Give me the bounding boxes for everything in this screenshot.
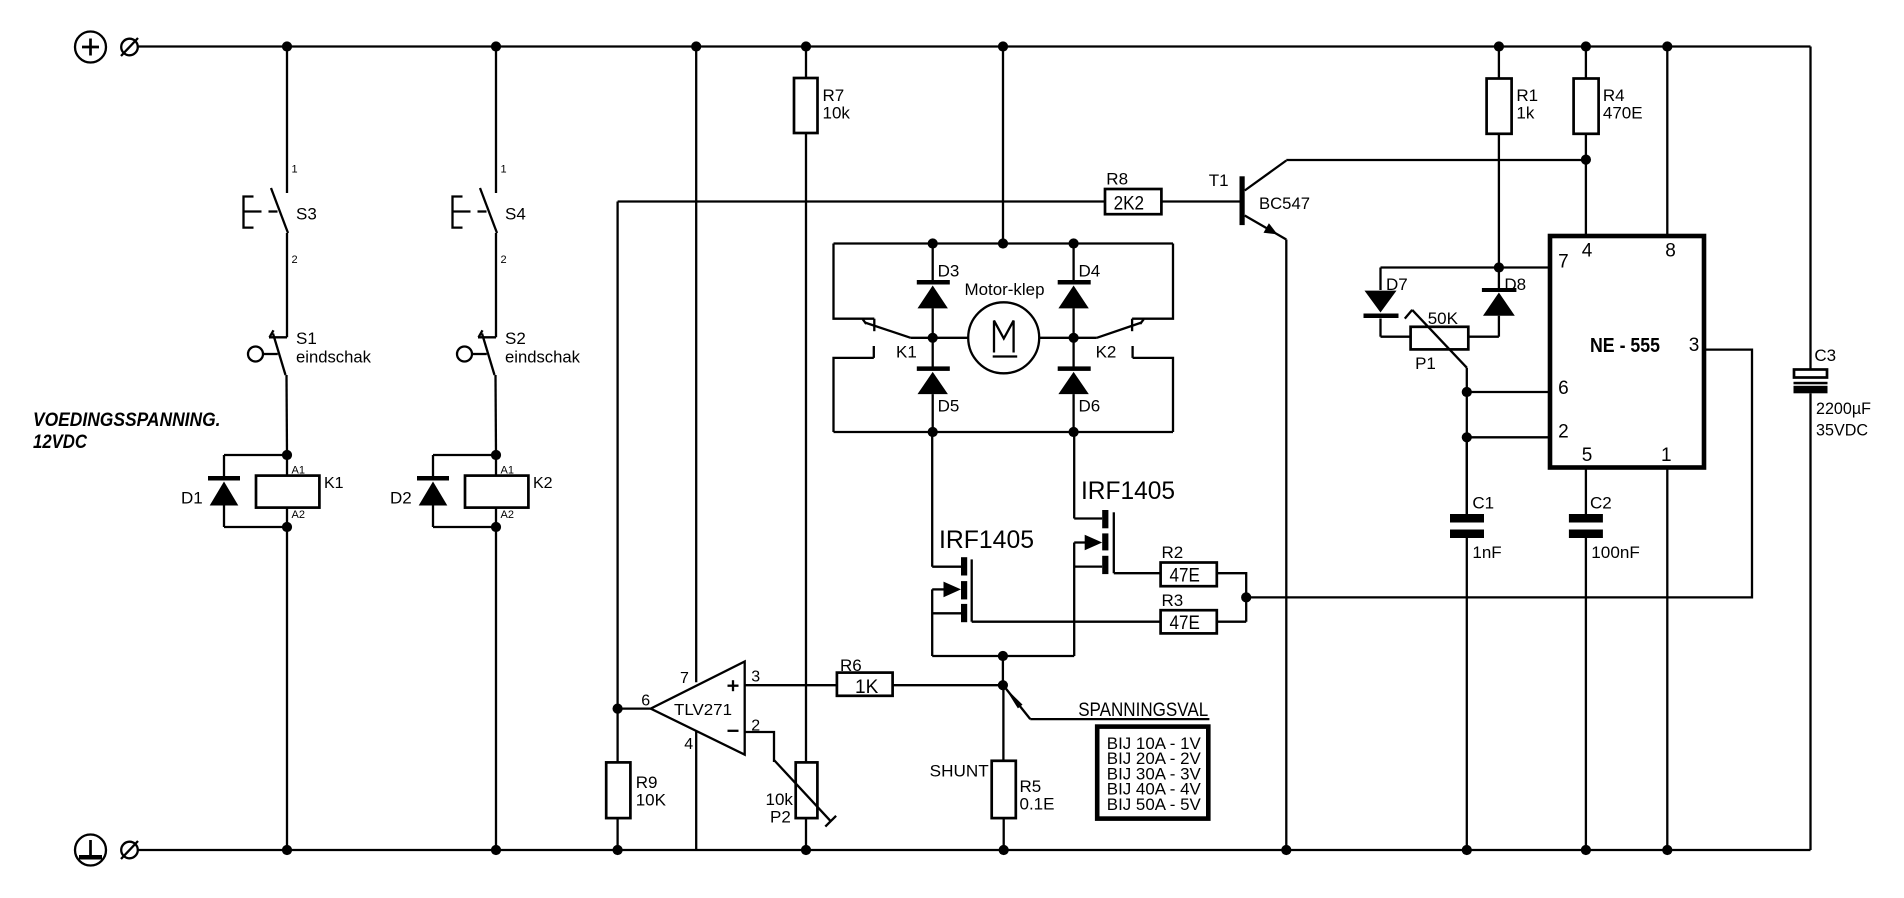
wire pin 3 to R6 (745, 684, 837, 686)
wire T1 collector to R4 (1286, 159, 1586, 161)
svg-text:IRF1405: IRF1405 (939, 526, 1034, 554)
svg-text:7: 7 (680, 670, 689, 687)
wire to diode D1 top (224, 454, 287, 456)
svg-text:A2: A2 (292, 509, 305, 521)
svg-text:D7: D7 (1386, 275, 1408, 294)
svg-text:S3: S3 (296, 205, 317, 224)
svg-text:1: 1 (501, 164, 507, 176)
wire op-amp V- (pin 4) to ground (695, 731, 697, 850)
wire motor left (911, 337, 969, 339)
svg-text:2200µF: 2200µF (1816, 399, 1871, 418)
relay contact K2 (bridge) (1096, 319, 1144, 362)
junction node motor left (928, 333, 938, 343)
transistor Q2 IRF1405 (1074, 432, 1175, 656)
wire pin 2 to P2 wiper (745, 732, 774, 762)
wire pin6 to pin2 node (1466, 392, 1468, 437)
op-amp U1 TLV271 (651, 662, 745, 755)
wire pin 2 555 (1467, 436, 1550, 438)
pin 5 label (555) (1582, 445, 1593, 466)
svg-text:D3: D3 (938, 262, 960, 281)
svg-text:D8: D8 (1504, 275, 1526, 294)
resistor R1 (1487, 79, 1539, 134)
svg-text:D5: D5 (938, 397, 960, 416)
wire output to R8 line (616, 202, 618, 709)
pin 1 label (555) (1661, 445, 1672, 466)
svg-text:NE - 555: NE - 555 (1590, 335, 1660, 357)
wire +12V top rail (138, 45, 1811, 47)
limit switch S1 (248, 329, 371, 375)
svg-text:S4: S4 (505, 205, 526, 224)
resistor R7 (794, 78, 850, 133)
junction node op-amp output (613, 704, 623, 714)
resistor R4 (1574, 79, 1643, 134)
pin 2 label S3 (292, 254, 298, 266)
wire bridge top (834, 242, 1174, 244)
svg-text:R9: R9 (636, 773, 658, 792)
op-amp wire pin6 555 (1467, 391, 1550, 393)
svg-text:6: 6 (1558, 378, 1569, 399)
wire pin 8 from rail (1666, 47, 1668, 237)
wire T1 emitter to ground (1285, 240, 1287, 851)
wire ground bottom rail (138, 849, 1811, 851)
pin 7 label (555) (1558, 252, 1569, 273)
junction node A2 of K2 (491, 522, 501, 532)
wire K1 A1 (286, 455, 288, 476)
wire motor right (1039, 337, 1097, 339)
svg-text:K2: K2 (1096, 343, 1117, 362)
pin 1 label S4 (501, 164, 507, 176)
capacitor C1 (1450, 437, 1502, 562)
svg-text:P2: P2 (770, 808, 791, 827)
svg-text:6: 6 (641, 693, 650, 710)
ground terminal (slashed circle) (121, 841, 138, 859)
svg-text:1: 1 (1661, 445, 1672, 466)
svg-text:VOEDINGSSPANNING.: VOEDINGSSPANNING. (33, 410, 221, 431)
junction node collector/R4 (1581, 155, 1591, 165)
junction node A1 of K1 (282, 450, 292, 460)
junction dots on +12V rail (282, 41, 1673, 51)
transistor Q1 IRF1405 (932, 432, 1034, 656)
svg-text:C3: C3 (1814, 346, 1836, 365)
diode D6 (1058, 338, 1101, 432)
wire S1-K1 (285, 375, 288, 455)
wire S3 top (286, 47, 288, 194)
svg-text:R3: R3 (1162, 591, 1184, 610)
IC U2 NE-555 (1550, 236, 1704, 468)
table voltage drop (1097, 727, 1208, 819)
svg-text:K2: K2 (533, 475, 553, 492)
svg-text:35VDC: 35VDC (1816, 421, 1868, 440)
pin 1 label S3 (292, 164, 298, 176)
svg-text:A1: A1 (292, 465, 305, 477)
wire C3 top (1809, 47, 1811, 371)
svg-text:R5: R5 (1020, 777, 1042, 796)
svg-text:SHUNT: SHUNT (930, 762, 989, 781)
pin 6 label (555) (1558, 378, 1569, 399)
pin 8 label (555) (1665, 241, 1676, 262)
wire R4 to pin 4 (1585, 134, 1587, 236)
wire R9 top (616, 709, 618, 763)
wire pin2 node to C1 (1466, 437, 1468, 514)
svg-text:R6: R6 (840, 656, 862, 675)
potentiometer P1 (1405, 309, 1468, 392)
plus supply symbol (75, 32, 106, 63)
svg-text:47E: 47E (1170, 566, 1200, 587)
pin 2 label (op-amp) (751, 717, 760, 734)
junction node shunt top (998, 680, 1008, 690)
wire C2 to ground rail (1585, 538, 1587, 850)
diode D3 (917, 244, 960, 338)
relay contact K1 (bridge) (863, 319, 917, 362)
svg-text:1K: 1K (855, 677, 879, 698)
diode D2 (390, 455, 449, 527)
wire gate Q1 to R3 (972, 621, 1161, 623)
annotation arrow SPANNINGSVAL (1005, 687, 1210, 721)
wire S4 top (495, 47, 497, 194)
shunt resistor R5 (930, 761, 1055, 818)
wire output node to R8 (618, 200, 1105, 202)
diode D4 (1058, 244, 1101, 338)
junction node sources (998, 651, 1008, 661)
svg-text:1k: 1k (1516, 104, 1534, 123)
svg-text:D2: D2 (390, 489, 412, 508)
wire pin 1 to ground rail (1666, 468, 1668, 850)
svg-text:2: 2 (292, 254, 298, 266)
wire R6 to shunt node (893, 684, 1003, 686)
wire K1 to ground rail (286, 508, 288, 850)
wire R5 to ground rail (1003, 818, 1005, 850)
svg-text:10k: 10k (766, 790, 794, 809)
transistor T1 BC547 (1209, 161, 1310, 240)
wire R2 right (1217, 573, 1246, 622)
svg-text:T1: T1 (1209, 171, 1229, 190)
capacitor C2 (1569, 494, 1640, 563)
diode D5 (917, 338, 960, 432)
supply terminal (slashed circle) (121, 38, 138, 56)
motor M (Motor-klep) (965, 280, 1045, 373)
svg-text:2K2: 2K2 (1114, 194, 1145, 215)
wire C3 to ground rail (1809, 393, 1811, 850)
wire pin 3 out (1246, 350, 1752, 598)
pin 2 label (555) (1558, 421, 1569, 442)
supply voltage note (33, 410, 221, 453)
pin 7 label (op-amp) (680, 670, 689, 687)
diode D7 (1364, 268, 1408, 337)
resistor R6 (837, 656, 893, 698)
svg-text:4: 4 (1582, 241, 1593, 262)
wire D7 to P1 (1381, 336, 1411, 338)
wire pin 5 to C2 (1585, 468, 1587, 514)
svg-text:12VDC: 12VDC (33, 432, 87, 453)
svg-text:D4: D4 (1079, 262, 1101, 281)
svg-text:R1: R1 (1516, 86, 1538, 105)
relay coil K2 (465, 475, 553, 508)
wire shunt node up to MOSFET sources (1002, 656, 1004, 685)
svg-text:A2: A2 (501, 509, 514, 521)
pin label A2 (K1) (292, 509, 305, 521)
svg-text:SPANNINGSVAL: SPANNINGSVAL (1078, 700, 1208, 721)
svg-text:470E: 470E (1603, 104, 1643, 123)
svg-text:5: 5 (1582, 445, 1593, 466)
wire R3 right (1217, 621, 1246, 623)
wire bridge right upper (1132, 244, 1173, 319)
capacitor C3 (1794, 346, 1872, 440)
svg-text:BIJ 50A - 5V: BIJ 50A - 5V (1107, 795, 1202, 814)
svg-text:R7: R7 (823, 86, 845, 105)
wire +12V to bridge (1002, 47, 1004, 244)
wire S2-K2 (494, 375, 497, 455)
resistor R3 (1161, 591, 1217, 634)
svg-text:3: 3 (1689, 335, 1700, 356)
svg-text:S1: S1 (296, 329, 317, 348)
wire op-amp output pin 6 (618, 707, 651, 709)
svg-text:1: 1 (292, 164, 298, 176)
pin 4 label (555) (1582, 241, 1593, 262)
junction node pin6/wiper (1462, 387, 1472, 397)
wire R4 top (1585, 47, 1587, 79)
pin label A1 (K1) (292, 465, 305, 477)
svg-text:47E: 47E (1170, 613, 1200, 634)
ground symbol (75, 835, 106, 866)
wire bridge left upper (834, 244, 875, 319)
junction node A1 of K2 (491, 450, 501, 460)
resistor R8 (1105, 170, 1161, 215)
wire diode D1 bottom (224, 526, 287, 528)
junction dots bridge bottom (928, 427, 1079, 437)
wire R1 top (1498, 47, 1500, 79)
svg-text:A1: A1 (501, 465, 514, 477)
wire K2 A1 (495, 455, 497, 476)
svg-text:100nF: 100nF (1591, 543, 1640, 562)
diode D8 (1482, 268, 1526, 337)
wire common sources (932, 655, 1074, 657)
wire to diode D2 top (433, 454, 496, 456)
pin 6 label (op-amp) (641, 693, 650, 710)
svg-text:10k: 10k (823, 104, 851, 123)
resistor R2 (1161, 543, 1217, 587)
svg-text:7: 7 (1558, 252, 1569, 273)
svg-text:R4: R4 (1603, 86, 1625, 105)
svg-text:R8: R8 (1106, 170, 1128, 189)
junction dots on ground rail (282, 845, 1673, 855)
svg-text:8: 8 (1665, 241, 1676, 262)
limit switch S2 (457, 329, 580, 375)
svg-text:TLV271: TLV271 (674, 702, 732, 719)
svg-text:R2: R2 (1162, 543, 1184, 562)
wire R9 to ground rail (616, 818, 618, 850)
svg-text:0.1E: 0.1E (1020, 795, 1055, 814)
svg-text:K1: K1 (896, 343, 917, 362)
svg-text:3: 3 (751, 668, 760, 685)
svg-text:P1: P1 (1415, 354, 1436, 373)
svg-text:eindschak: eindschak (296, 348, 371, 367)
wire bridge bottom (834, 431, 1174, 433)
wire R8 to T1 base (1161, 200, 1239, 202)
potentiometer P2 (766, 760, 837, 827)
pin label A2 (K2) (501, 509, 514, 521)
wire P1 to D8 (1468, 336, 1499, 338)
diode D1 (181, 455, 240, 527)
pin label A1 (K2) (501, 465, 514, 477)
resistor R9 (606, 762, 666, 818)
svg-text:IRF1405: IRF1405 (1081, 477, 1175, 505)
wire S4-S2 (495, 233, 497, 337)
svg-text:4: 4 (684, 736, 693, 753)
wire gate Q2 to R2 (1114, 572, 1161, 574)
junction dots bridge top (928, 238, 1079, 248)
wire C1 to ground rail (1466, 538, 1468, 850)
switch S3 (244, 188, 317, 233)
svg-text:S2: S2 (505, 329, 526, 348)
wire P2 to ground rail (805, 818, 807, 850)
wire pin 7 node (1381, 266, 1551, 268)
pin 3 label (op-amp) (751, 668, 760, 685)
svg-text:C2: C2 (1590, 494, 1612, 513)
svg-text:2: 2 (1558, 421, 1569, 442)
pin 4 label (op-amp) (684, 736, 693, 753)
svg-text:BC547: BC547 (1259, 194, 1310, 213)
relay coil K1 (256, 475, 344, 508)
svg-text:Motor-klep: Motor-klep (965, 280, 1045, 299)
junction node gate drive (1241, 592, 1251, 602)
junction node pin2/C1 (1462, 432, 1472, 442)
svg-text:C1: C1 (1472, 494, 1494, 513)
svg-text:1nF: 1nF (1472, 543, 1501, 562)
svg-text:50K: 50K (1428, 309, 1459, 328)
svg-text:10K: 10K (636, 791, 667, 810)
switch S4 (453, 188, 526, 233)
wire op-amp V+ (pin 7) from rail (695, 47, 697, 683)
wire diode D2 bottom (433, 526, 496, 528)
svg-text:eindschak: eindschak (505, 348, 580, 367)
junction node D8 top (1494, 262, 1504, 272)
junction node A2 of K1 (282, 522, 292, 532)
wire bridge left lower (834, 346, 874, 432)
svg-text:D6: D6 (1079, 397, 1101, 416)
wire R7 to P2 (805, 133, 807, 762)
pin 2 label S4 (501, 254, 507, 266)
wire K2 to ground rail (495, 508, 497, 850)
wire R7 top (805, 47, 807, 79)
svg-text:2: 2 (501, 254, 507, 266)
junction node motor right (1069, 333, 1079, 343)
wire bridge right lower (1133, 346, 1173, 432)
wire S3-S1 (286, 233, 288, 337)
wire R1 to pin7 node (1498, 134, 1500, 268)
svg-text:D1: D1 (181, 489, 203, 508)
pin 3 label (555) (1689, 335, 1700, 356)
wire shunt node down to R5 (1002, 685, 1004, 761)
svg-text:K1: K1 (324, 475, 344, 492)
